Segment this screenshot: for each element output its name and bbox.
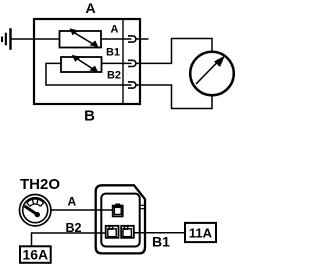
wire R1 to terminal A xyxy=(101,38,132,40)
terminal hook B2 xyxy=(128,82,136,88)
svg-text:11A: 11A xyxy=(189,225,213,240)
sender unit box xyxy=(34,19,140,104)
svg-text:B2: B2 xyxy=(66,221,82,235)
wire R2 left to B2 line xyxy=(46,63,132,85)
box 11A xyxy=(185,223,216,242)
terminal hook A xyxy=(128,36,136,42)
gauge TH2O scale band xyxy=(27,199,44,206)
svg-text:B1: B1 xyxy=(152,233,170,249)
pin B1 cavity xyxy=(121,226,134,238)
connector C1 outer body xyxy=(96,185,145,253)
terminal hook B1 xyxy=(128,60,136,66)
meter M1 needle xyxy=(196,56,225,85)
wire B1 connector to 11A xyxy=(134,232,185,234)
pin B2 cavity xyxy=(106,226,119,238)
connector C1 inner outline xyxy=(101,194,139,247)
gauge TH2O hub xyxy=(35,212,40,217)
svg-text:A: A xyxy=(85,0,95,16)
box 16A xyxy=(20,246,51,262)
gauge TH2O outer circle xyxy=(20,195,51,226)
connector divider xyxy=(122,18,124,104)
resistor R1 arrow xyxy=(69,28,98,47)
gauge TH2O inner circle xyxy=(23,198,48,223)
svg-text:A: A xyxy=(111,24,119,36)
resistor R1 xyxy=(60,31,102,48)
svg-text:B: B xyxy=(84,108,95,125)
wire ground to resistor R1 xyxy=(11,38,60,40)
pin A cavity xyxy=(113,206,123,217)
svg-text:B1: B1 xyxy=(106,47,120,59)
wire terminal A stub xyxy=(136,38,149,40)
resistor R2 arrow xyxy=(72,55,98,73)
svg-text:B2: B2 xyxy=(107,70,121,82)
svg-text:TH2O: TH2O xyxy=(20,176,60,193)
pin B1 terminal glyph xyxy=(123,226,131,236)
wire terminal B2 to meter bottom xyxy=(136,85,212,109)
pin A terminal glyph xyxy=(114,204,121,214)
connector C1 right tab detail xyxy=(140,204,145,206)
wire A gauge to connector pin A xyxy=(51,209,113,211)
resistor R2 xyxy=(61,57,102,72)
meter M1 circle xyxy=(190,52,234,96)
pin B2 terminal glyph xyxy=(108,226,116,236)
wire terminal B1 to meter top xyxy=(136,39,212,64)
svg-text:16A: 16A xyxy=(22,246,48,262)
svg-text:A: A xyxy=(68,195,77,209)
gauge TH2O needle xyxy=(25,206,38,215)
wire B2 16A to connector pin B2 xyxy=(32,233,106,246)
ground xyxy=(1,28,12,50)
wire R2 to terminal B1 xyxy=(102,62,132,64)
